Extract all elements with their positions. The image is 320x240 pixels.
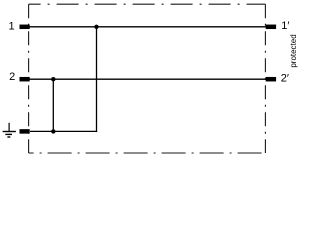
terminal ground (left block) xyxy=(20,129,30,134)
ground symbol bar 2 xyxy=(5,133,12,135)
wire ground bus (ground terminal to vertical riser) xyxy=(30,130,97,132)
terminal 1 (left block) xyxy=(20,25,30,30)
svg-text:1: 1 xyxy=(8,20,14,32)
ground symbol stem xyxy=(8,123,10,132)
junction dot on line 1 xyxy=(94,25,98,29)
svg-text:2: 2 xyxy=(9,71,15,83)
ground symbol bar 1 xyxy=(3,131,16,133)
terminal 2' (right block) xyxy=(266,77,276,82)
svg-text:2′: 2′ xyxy=(281,73,289,85)
device enclosure boundary top edge (dash-dot) xyxy=(29,3,266,5)
junction dot on line 2 xyxy=(51,77,55,81)
device enclosure boundary left edge (dash-dot) xyxy=(28,4,30,153)
svg-text:1′: 1′ xyxy=(281,20,289,32)
svg-text:protected: protected xyxy=(289,34,298,67)
wire vertical riser from line 2 to ground bus xyxy=(52,79,54,131)
device enclosure boundary right edge (dash-dot) xyxy=(264,4,266,153)
wire line 1 (terminal 1 to terminal 1') xyxy=(29,26,266,28)
wire vertical riser from line 1 to ground bus xyxy=(96,27,98,132)
junction dot on ground bus xyxy=(51,129,55,133)
wire line 2 (terminal 2 to terminal 2') xyxy=(29,78,266,80)
ground symbol bar 3 xyxy=(7,136,10,138)
device enclosure boundary bottom edge (dash-dot) xyxy=(29,152,266,154)
terminal 1' (right block) xyxy=(266,25,276,30)
terminal 2 (left block) xyxy=(20,77,30,82)
